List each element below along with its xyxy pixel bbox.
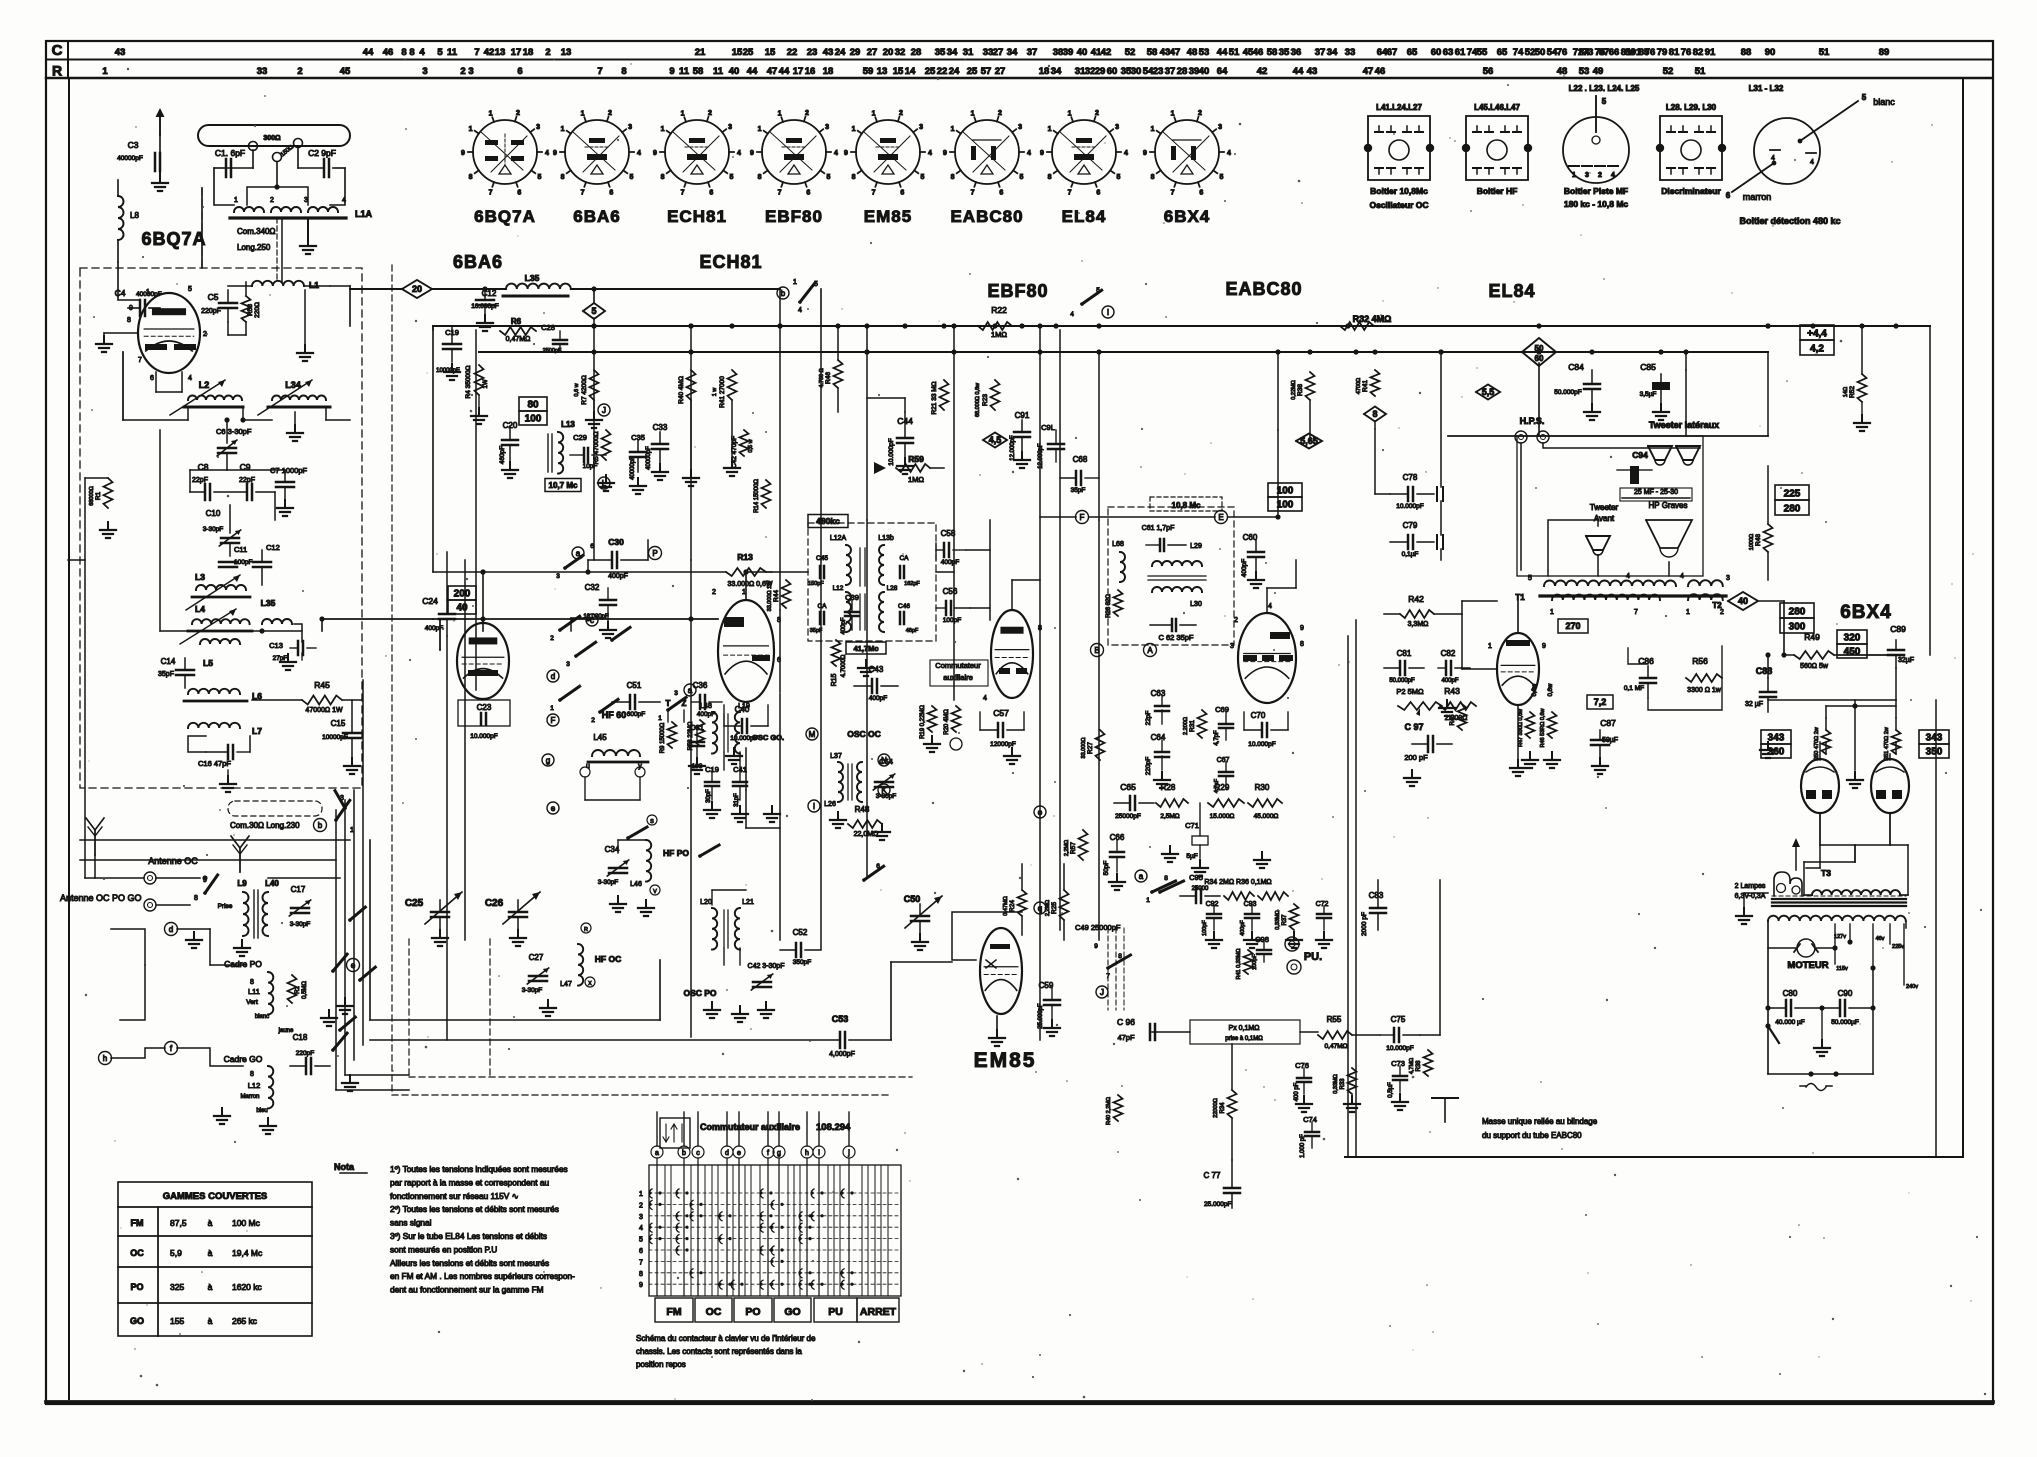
480kc IF transformer dashed box <box>808 523 936 641</box>
svg-text:L22 . L23. L24. L25: L22 . L23. L24. L25 <box>1569 84 1640 93</box>
svg-text:29: 29 <box>1095 66 1106 77</box>
svg-text:4,7µF: 4,7µF <box>1214 778 1220 793</box>
svg-text:2: 2 <box>1598 172 1602 179</box>
svg-text:EL84: EL84 <box>1062 207 1107 226</box>
svg-text:52: 52 <box>1663 66 1674 77</box>
svg-text:35pF: 35pF <box>1071 487 1086 494</box>
svg-text:2.200Ω: 2.200Ω <box>1183 717 1189 735</box>
svg-text:15.000Ω: 15.000Ω <box>1210 813 1235 820</box>
svg-text:L26: L26 <box>824 801 836 808</box>
svg-text:L3: L3 <box>195 572 205 582</box>
wire antenna to tube grid <box>118 262 140 300</box>
svg-text:R47 330Ω 0,6w: R47 330Ω 0,6w <box>1518 709 1524 747</box>
svg-text:8: 8 <box>758 174 762 181</box>
svg-text:60: 60 <box>1535 354 1544 363</box>
svg-text:F: F <box>551 716 556 725</box>
svg-text:C63: C63 <box>1151 689 1166 698</box>
svg-text:3-30pF: 3-30pF <box>522 987 543 994</box>
svg-text:46: 46 <box>1253 47 1264 58</box>
svg-text:7: 7 <box>581 189 585 196</box>
svg-text:7: 7 <box>971 189 975 196</box>
motor circle <box>1797 939 1815 957</box>
wire x1686 drop <box>1685 370 1687 436</box>
svg-text:12.000pF: 12.000pF <box>1038 443 1044 469</box>
svg-text:10.000pF: 10.000pF <box>1386 1045 1413 1052</box>
svg-text:du support du tube EABC80: du support du tube EABC80 <box>1482 1131 1582 1140</box>
svg-text:EABC80: EABC80 <box>1225 279 1302 299</box>
resistor R41 27000 <box>728 370 737 400</box>
svg-text:150pF: 150pF <box>808 581 824 587</box>
svg-text:1MΩ: 1MΩ <box>991 330 1007 339</box>
svg-text:40: 40 <box>1738 596 1748 606</box>
svg-text:350: 350 <box>1926 747 1943 758</box>
svg-text:42: 42 <box>1257 66 1268 77</box>
svg-text:40: 40 <box>456 603 468 614</box>
table gammes couvertes <box>118 1182 312 1336</box>
svg-text:1: 1 <box>1572 172 1576 179</box>
wire pot net <box>1152 1031 1190 1033</box>
module Boitier Piste MF <box>1563 84 1640 209</box>
svg-text:3-30pF: 3-30pF <box>203 526 224 533</box>
svg-text:Marron: Marron <box>240 1094 259 1100</box>
svg-text:ECH81: ECH81 <box>667 207 727 226</box>
svg-text:200: 200 <box>454 589 471 600</box>
svg-text:7: 7 <box>1171 189 1175 196</box>
svg-text:12.000pF: 12.000pF <box>1010 435 1016 461</box>
svg-text:7: 7 <box>1634 609 1638 616</box>
ground R4 <box>478 395 480 408</box>
svg-text:46v: 46v <box>1876 936 1885 942</box>
wire bundle horizontals <box>336 1089 409 1091</box>
svg-text:37: 37 <box>1165 66 1176 77</box>
svg-text:7: 7 <box>778 189 782 196</box>
antenna arrow FM <box>159 112 161 135</box>
svg-text:0,1 MF: 0,1 MF <box>1624 685 1644 692</box>
svg-text:50: 50 <box>1535 47 1546 58</box>
svg-text:50pF: 50pF <box>1103 861 1110 876</box>
svg-text:Schéma du contacteur à clavier: Schéma du contacteur à clavier vu de l'i… <box>636 1334 816 1343</box>
svg-text:82: 82 <box>1693 47 1704 58</box>
svg-text:R41 0,33MΩ: R41 0,33MΩ <box>1236 948 1242 979</box>
svg-text:EM85: EM85 <box>974 1049 1037 1072</box>
resistor R4 35000 <box>475 365 484 395</box>
ground C60 <box>1255 572 1257 580</box>
tube base diagram 6BA6 <box>553 110 641 196</box>
svg-text:C70: C70 <box>1251 711 1266 720</box>
svg-text:37: 37 <box>1027 47 1038 58</box>
svg-text:0,6w: 0,6w <box>1548 683 1554 696</box>
svg-text:R31: R31 <box>1189 720 1196 732</box>
svg-text:59: 59 <box>863 66 874 77</box>
svg-text:3: 3 <box>566 661 570 668</box>
svg-text:58: 58 <box>693 66 704 77</box>
ground C33 <box>659 464 661 472</box>
svg-text:C89: C89 <box>1890 624 1906 634</box>
svg-text:T1: T1 <box>1515 593 1525 602</box>
svg-text:5µF: 5µF <box>1186 853 1197 860</box>
svg-text:8: 8 <box>1048 174 1052 181</box>
terminal F2 <box>547 714 559 726</box>
svg-text:Antenne OC PO GO: Antenne OC PO GO <box>60 893 142 903</box>
wire to switch e <box>268 877 340 879</box>
svg-text:R41 27000: R41 27000 <box>719 376 726 408</box>
svg-text:560Ω 5w: 560Ω 5w <box>1800 663 1829 670</box>
speaker box wires <box>1520 443 1522 570</box>
svg-text:1 w: 1 w <box>712 388 718 397</box>
ground L1 return <box>304 290 306 345</box>
svg-text:R28: R28 <box>1161 783 1176 792</box>
transformer L29 L30 <box>1148 543 1206 608</box>
wire left col <box>84 478 86 560</box>
svg-text:32 µF: 32 µF <box>1745 701 1763 708</box>
resistor R9 15000 <box>668 722 677 748</box>
svg-text:GO: GO <box>784 1306 800 1318</box>
svg-text:R44: R44 <box>773 590 780 602</box>
ground C31 <box>696 758 698 766</box>
tube base diagram EBF80 <box>750 110 838 196</box>
svg-text:6,3V-0,3A: 6,3V-0,3A <box>1735 893 1766 900</box>
resistor R40 4M <box>687 370 696 400</box>
svg-text:4: 4 <box>1070 311 1074 318</box>
long wire bottom switch bus <box>370 1039 840 1041</box>
svg-text:1620 kc: 1620 kc <box>232 1282 263 1292</box>
svg-text:87,5: 87,5 <box>170 1218 187 1228</box>
svg-text:R45: R45 <box>1450 714 1456 726</box>
svg-text:C26: C26 <box>485 898 504 909</box>
mains bottom wire <box>1768 1073 1873 1075</box>
svg-text:10.000pF: 10.000pF <box>470 733 497 740</box>
svg-text:44: 44 <box>1217 47 1228 58</box>
svg-text:C1. 6pF: C1. 6pF <box>215 148 245 158</box>
tube base diagram 6BX4 <box>1143 110 1231 196</box>
svg-text:HP Graves: HP Graves <box>1649 501 1688 510</box>
wire 6BX4 plates down <box>1819 813 1821 845</box>
svg-text:3: 3 <box>674 690 678 697</box>
svg-text:4: 4 <box>737 150 741 157</box>
wire FM to 6BA6 grid line <box>350 288 403 290</box>
svg-text:3: 3 <box>340 795 344 802</box>
resistor R57 22M <box>1079 830 1088 860</box>
svg-text:R7 4200Ω: R7 4200Ω <box>581 375 588 405</box>
svg-text:en FM et AM . Les nombres supé: en FM et AM . Les nombres supérieurs cor… <box>390 1271 575 1281</box>
wire switch stack <box>587 560 589 572</box>
svg-text:K: K <box>881 786 887 795</box>
svg-text:R14 15000Ω: R14 15000Ω <box>754 479 760 513</box>
svg-text:8: 8 <box>852 174 856 181</box>
svg-text:R34: R34 <box>1220 1102 1226 1114</box>
svg-text:R45: R45 <box>314 680 330 690</box>
svg-text:100pF: 100pF <box>943 617 961 624</box>
svg-text:74: 74 <box>1513 47 1524 58</box>
svg-text:7: 7 <box>872 189 876 196</box>
svg-text:58: 58 <box>1267 47 1278 58</box>
svg-text:1: 1 <box>793 279 797 286</box>
diamond 5 <box>583 303 605 319</box>
bus HT top <box>433 325 1930 327</box>
resistor R33 033M <box>1348 1068 1357 1094</box>
svg-text:R57: R57 <box>1070 842 1077 854</box>
svg-text:4,7pF: 4,7pF <box>1214 730 1220 746</box>
svg-text:C57: C57 <box>993 708 1009 718</box>
resistor R7 4200 <box>590 370 599 400</box>
ground C7 <box>284 500 286 508</box>
resistor R19 022M <box>928 706 937 732</box>
ground ECH81 cath <box>733 748 735 756</box>
resistor R21 33M <box>940 380 949 410</box>
svg-text:5: 5 <box>188 286 192 293</box>
svg-text:86: 86 <box>1625 47 1636 58</box>
svg-text:jaune: jaune <box>278 1028 294 1034</box>
tube base diagram EABC80 <box>943 110 1031 196</box>
svg-text:L12: L12 <box>833 585 844 592</box>
svg-text:1: 1 <box>102 66 108 77</box>
ground HFPO <box>617 896 619 904</box>
wire 6BA6 stage h <box>433 571 483 573</box>
svg-text:48pF: 48pF <box>906 628 919 634</box>
svg-text:R43: R43 <box>1444 686 1460 696</box>
speaker tweeter avant <box>1586 536 1610 550</box>
svg-text:C78: C78 <box>1403 473 1418 482</box>
ground OSC GO <box>711 802 713 810</box>
svg-text:3: 3 <box>1218 124 1222 131</box>
svg-text:6: 6 <box>609 189 613 196</box>
ground L12 <box>221 1108 223 1116</box>
svg-text:0,6w: 0,6w <box>1532 683 1538 696</box>
wire C44 tap <box>904 398 906 412</box>
svg-text:162pF: 162pF <box>904 581 920 587</box>
svg-text:h: h <box>805 1150 809 1157</box>
svg-text:a: a <box>1139 872 1144 881</box>
contact matrix extra verticals <box>670 1165 672 1296</box>
svg-text:dent au fonctionnement sur l: dent au fonctionnement sur la gamme FM <box>390 1285 544 1295</box>
svg-text:2500pF: 2500pF <box>543 348 562 354</box>
svg-text:ECH81: ECH81 <box>699 252 762 272</box>
ground L11 <box>328 1010 330 1018</box>
svg-text:6BA6: 6BA6 <box>453 252 503 272</box>
svg-text:position repos: position repos <box>636 1360 686 1369</box>
svg-text:66: 66 <box>1609 47 1620 58</box>
svg-text:C2 9pF: C2 9pF <box>308 148 336 158</box>
svg-text:5,9: 5,9 <box>170 1248 182 1258</box>
wire EM85 connection <box>1098 352 1100 520</box>
switch pin5 <box>798 300 802 304</box>
svg-text:Masse unique reliée au blindag: Masse unique reliée au blindage <box>1482 1117 1598 1126</box>
svg-text:4: 4 <box>545 150 549 157</box>
svg-text:53: 53 <box>1199 47 1210 58</box>
T3 left leg <box>1767 921 1769 1074</box>
module Boitier detection 480kc <box>1726 84 1895 226</box>
ground C85 <box>1660 404 1662 412</box>
svg-text:L12A: L12A <box>830 535 847 542</box>
svg-text:C71: C71 <box>1185 821 1199 830</box>
svg-text:P: P <box>652 549 657 558</box>
svg-text:47pF: 47pF <box>1117 1033 1135 1042</box>
svg-text:6BA6: 6BA6 <box>573 207 620 226</box>
svg-text:C52: C52 <box>793 928 808 937</box>
svg-text:11: 11 <box>713 66 724 77</box>
svg-text:L21: L21 <box>742 899 754 906</box>
resistor R38 47M <box>1424 1050 1433 1076</box>
svg-text:I: I <box>813 802 815 811</box>
svg-text:1: 1 <box>1146 897 1150 904</box>
svg-text:C82: C82 <box>1441 649 1456 658</box>
resistor R50 470 <box>1822 730 1831 754</box>
svg-text:56: 56 <box>1483 66 1494 77</box>
svg-text:T: T <box>666 699 671 708</box>
svg-text:R24: R24 <box>1009 900 1016 912</box>
svg-text:R40 2,2MΩ: R40 2,2MΩ <box>1106 1097 1112 1125</box>
inductor L8 <box>118 196 124 240</box>
svg-text:C4: C4 <box>115 288 126 298</box>
svg-text:C25: C25 <box>405 898 424 909</box>
svg-text:R53: R53 <box>247 304 254 316</box>
svg-text:g: g <box>777 1150 781 1157</box>
svg-text:R37: R37 <box>1282 914 1288 926</box>
inductor L12 cadre GO <box>268 1066 273 1108</box>
svg-text:7: 7 <box>138 357 142 364</box>
resistor R14 <box>762 480 771 508</box>
svg-text:6: 6 <box>999 189 1003 196</box>
svg-text:5: 5 <box>1219 174 1223 181</box>
svg-text:8: 8 <box>250 979 254 986</box>
terminal B A <box>1091 644 1104 657</box>
svg-text:1: 1 <box>681 111 685 118</box>
resistor R34b 22000 <box>1228 1090 1237 1118</box>
transformer L9 L40 <box>218 879 280 938</box>
svg-text:L20: L20 <box>700 899 712 906</box>
svg-text:8: 8 <box>194 895 198 902</box>
svg-text:EABC80: EABC80 <box>950 207 1023 226</box>
switch antenna <box>203 891 207 895</box>
svg-text:HF 60: HF 60 <box>602 710 627 720</box>
terminal h <box>99 1052 112 1065</box>
wire antenna terms <box>156 877 200 879</box>
svg-text:270: 270 <box>1565 621 1580 631</box>
svg-text:C65: C65 <box>1120 782 1136 792</box>
box 72 <box>1587 695 1613 709</box>
svg-text:68.000Ω 0,6w: 68.000Ω 0,6w <box>975 383 981 417</box>
svg-text:PU: PU <box>828 1306 843 1318</box>
svg-text:C30: C30 <box>608 537 624 547</box>
svg-text:Prise: Prise <box>218 903 233 910</box>
svg-text:41,7Mc: 41,7Mc <box>853 644 878 653</box>
svg-text:R: R <box>52 63 62 79</box>
ground IFT <box>865 660 867 668</box>
svg-text:R41: R41 <box>1362 380 1369 392</box>
svg-text:L11: L11 <box>248 987 260 996</box>
svg-text:8: 8 <box>951 174 955 181</box>
svg-text:155: 155 <box>170 1316 184 1326</box>
ground P2 <box>1446 700 1448 708</box>
svg-text:36: 36 <box>1291 47 1302 58</box>
svg-text:e: e <box>737 1150 741 1157</box>
svg-text:10.000pF: 10.000pF <box>888 438 895 465</box>
svg-text:4: 4 <box>1124 150 1128 157</box>
svg-text:C42 3-30pF: C42 3-30pF <box>748 963 785 970</box>
svg-text:3: 3 <box>304 197 308 204</box>
resistor R20 4M <box>952 706 961 732</box>
tube EBF80 <box>991 610 1033 698</box>
svg-text:8: 8 <box>1300 641 1304 648</box>
svg-text:2 Lampes: 2 Lampes <box>1735 883 1766 890</box>
oscillator OSC PO <box>683 899 753 998</box>
svg-text:9: 9 <box>844 150 848 157</box>
speaker section box <box>1448 435 1768 437</box>
svg-text:115v: 115v <box>1836 966 1848 972</box>
svg-text:17: 17 <box>793 66 804 77</box>
svg-text:6BX4: 6BX4 <box>1840 602 1892 623</box>
svg-text:5,5: 5,5 <box>1482 387 1495 397</box>
arrow R59 <box>874 462 886 474</box>
svg-text:1: 1 <box>639 1191 643 1198</box>
output transformer T1 T2 <box>1515 573 1730 616</box>
ground HFOC <box>547 1000 549 1008</box>
svg-text:4,000pF: 4,000pF <box>829 1051 855 1058</box>
svg-text:65: 65 <box>1407 47 1418 58</box>
svg-text:4: 4 <box>1227 150 1231 157</box>
svg-text:48: 48 <box>1557 66 1568 77</box>
inner frame bottom right <box>1345 1156 1963 1158</box>
svg-text:C11: C11 <box>234 545 247 554</box>
transformer T3 core <box>1772 898 1906 900</box>
svg-text:C29: C29 <box>573 433 587 442</box>
wire F to E <box>1040 516 1076 518</box>
svg-text:R46: R46 <box>825 372 832 384</box>
svg-text:C53: C53 <box>832 1014 849 1024</box>
svg-text:C 96: C 96 <box>1117 1017 1135 1027</box>
svg-text:Commutateur auxiliaire: Commutateur auxiliaire <box>700 1122 800 1132</box>
svg-text:100pF: 100pF <box>1202 920 1208 936</box>
svg-text:1: 1 <box>658 715 662 722</box>
svg-text:L40: L40 <box>265 879 279 888</box>
svg-text:9: 9 <box>750 150 754 157</box>
svg-text:400pF: 400pF <box>608 573 628 580</box>
svg-text:chassis. Les contacts sont r: chassis. Les contacts sont représentés d… <box>636 1347 802 1356</box>
module box Discriminateur <box>1656 103 1726 196</box>
terminal e <box>347 959 360 972</box>
svg-text:2: 2 <box>591 717 595 724</box>
svg-text:6BQ7A: 6BQ7A <box>474 207 536 226</box>
wire ECH81 plate <box>745 572 747 600</box>
svg-text:9: 9 <box>461 150 465 157</box>
svg-text:7: 7 <box>489 189 493 196</box>
terminal antenne OC <box>144 872 156 884</box>
wire 1278 drop <box>1277 430 1279 517</box>
svg-text:blanc: blanc <box>1873 97 1895 107</box>
wire switch down <box>820 289 822 326</box>
wire heater pins <box>155 372 157 392</box>
svg-text:5: 5 <box>537 174 541 181</box>
svg-text:225: 225 <box>1784 489 1801 500</box>
svg-text:auxiliaire: auxiliaire <box>943 673 973 682</box>
svg-text:43: 43 <box>1160 47 1171 58</box>
svg-text:R22: R22 <box>991 305 1007 315</box>
diamond 25 <box>1296 434 1322 449</box>
terminal g2 <box>542 754 554 766</box>
tube 6BA6 triode <box>457 623 509 699</box>
switch b <box>334 818 338 822</box>
svg-text:43: 43 <box>1307 66 1318 77</box>
svg-text:C17: C17 <box>291 885 306 894</box>
antenna symbol OC <box>94 830 96 855</box>
wires C8 C9 <box>189 470 191 492</box>
svg-text:Tweeter latéraux: Tweeter latéraux <box>1649 420 1719 430</box>
svg-text:6: 6 <box>1096 189 1100 196</box>
svg-text:1: 1 <box>469 126 473 133</box>
resistor R41 <box>1244 950 1253 974</box>
svg-text:28: 28 <box>1177 66 1188 77</box>
svg-text:C68: C68 <box>1073 455 1088 464</box>
